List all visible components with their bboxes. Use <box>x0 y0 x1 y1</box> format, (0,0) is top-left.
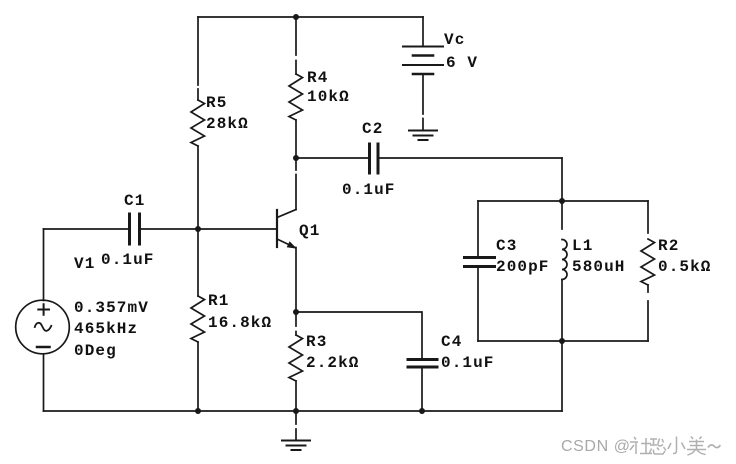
battery Vc plates <box>403 46 443 48</box>
svg-text:0.5kΩ: 0.5kΩ <box>658 258 712 276</box>
svg-text:2.2kΩ: 2.2kΩ <box>306 354 360 372</box>
wire emitter down <box>295 248 297 313</box>
inductor L1 <box>562 240 567 280</box>
svg-text:0.1uF: 0.1uF <box>342 181 396 199</box>
resistor R3 <box>289 335 303 381</box>
source V1 circle <box>16 300 70 354</box>
wire C3 branch bottom <box>477 267 479 342</box>
capacitor C2 plates <box>370 144 379 173</box>
node R3 bottom <box>293 408 299 414</box>
wire C1 left <box>44 228 130 230</box>
capacitor C1 plates <box>130 214 140 244</box>
capacitor C3 plates <box>465 258 495 267</box>
svg-text:V1: V1 <box>74 255 95 273</box>
watermark glyph 1 <box>630 437 652 454</box>
svg-text:580uH: 580uH <box>572 258 626 276</box>
svg-text:0.357mV: 0.357mV <box>74 299 149 317</box>
wire L1 branch bottom <box>561 280 563 342</box>
wire V1 top <box>43 229 45 301</box>
svg-text:C1: C1 <box>124 192 145 210</box>
node B1 <box>195 226 201 232</box>
svg-text:Vc: Vc <box>444 31 465 49</box>
svg-text:28kΩ: 28kΩ <box>206 115 249 133</box>
wire R2 branch bottom <box>647 285 649 341</box>
wire R5 to node <box>197 146 199 229</box>
source V1 minus sign <box>37 346 50 349</box>
svg-text:L1: L1 <box>572 237 593 255</box>
wire base <box>140 228 277 230</box>
svg-text:R4: R4 <box>307 69 328 87</box>
transistor Q1 base bar <box>276 210 278 247</box>
svg-text:0Deg: 0Deg <box>74 342 117 360</box>
wire R2 branch top <box>647 201 649 233</box>
wire C3 branch top <box>477 201 479 257</box>
resistor R2 <box>641 239 655 285</box>
svg-text:465kHz: 465kHz <box>74 320 138 338</box>
node top of R4 branch <box>293 14 299 20</box>
node R1 bottom <box>195 408 201 414</box>
svg-text:C3: C3 <box>496 237 517 255</box>
wire V1 bottom <box>43 355 45 412</box>
transistor Q1 collector diagonal <box>277 210 296 218</box>
transistor Q1 emitter arrow <box>287 242 295 248</box>
battery Vc wire top <box>422 17 424 46</box>
wire C4 bottom <box>421 367 423 411</box>
wire bottom rail <box>44 410 563 412</box>
svg-text:CSDN @: CSDN @ <box>561 438 631 455</box>
svg-text:10kΩ: 10kΩ <box>307 88 350 106</box>
wire node to collector <box>295 158 297 210</box>
svg-text:6 V: 6 V <box>446 54 478 72</box>
capacitor C4 plates <box>408 360 437 368</box>
wire top rail <box>198 16 423 18</box>
source V1 sine <box>35 323 52 331</box>
svg-text:R2: R2 <box>658 237 679 255</box>
svg-text:0.1uF: 0.1uF <box>101 251 155 269</box>
node tank bottom <box>559 338 565 344</box>
svg-text:R1: R1 <box>208 292 229 310</box>
transistor Q1 emitter diagonal <box>277 239 295 248</box>
svg-text:R3: R3 <box>306 333 327 351</box>
watermark glyph 2 <box>650 439 667 455</box>
wire R3 bottom <box>295 381 297 411</box>
svg-text:C4: C4 <box>441 333 462 351</box>
svg-text:0.1uF: 0.1uF <box>441 354 495 372</box>
node tank top <box>559 198 565 204</box>
wire node to R1 <box>197 229 199 296</box>
wire R1 to bottom rail <box>197 342 199 411</box>
node collector/C2 <box>293 155 299 161</box>
svg-text:C2: C2 <box>362 120 383 138</box>
capacitor C2 wire left <box>296 157 369 159</box>
wire battery to ground <box>422 74 424 130</box>
wire R3 top <box>295 312 297 335</box>
svg-text:16.8kΩ: 16.8kΩ <box>208 314 272 332</box>
watermark glyph 4 <box>687 437 706 456</box>
resistor R5 <box>191 100 205 146</box>
wire emitter to C4 <box>296 312 422 359</box>
wire R4 branch top <box>295 17 297 74</box>
wire R4 to collector node <box>295 120 297 158</box>
resistor R1 <box>191 296 205 342</box>
source V1 plus sign <box>38 304 49 315</box>
ground G1 <box>409 131 437 141</box>
svg-text:R5: R5 <box>206 94 227 112</box>
watermark tilde <box>708 445 720 448</box>
node emitter/R3 <box>293 309 299 315</box>
wire C2 down to tank <box>561 158 563 201</box>
node C4 bottom <box>419 408 425 414</box>
wire tank top rail <box>478 200 648 202</box>
svg-text:Q1: Q1 <box>299 222 320 240</box>
wire L1 branch top <box>561 201 563 229</box>
wire R5 branch top <box>197 17 199 100</box>
wire tank bottom rail <box>478 340 648 342</box>
ground G2 <box>282 441 310 451</box>
resistor R4 <box>289 74 303 120</box>
wire ground stub 2 <box>295 411 297 440</box>
wire tank to bottom rail <box>561 341 563 411</box>
capacitor C2 wire right <box>378 157 562 159</box>
watermark glyph 3 <box>668 437 685 454</box>
svg-text:200pF: 200pF <box>496 258 550 276</box>
